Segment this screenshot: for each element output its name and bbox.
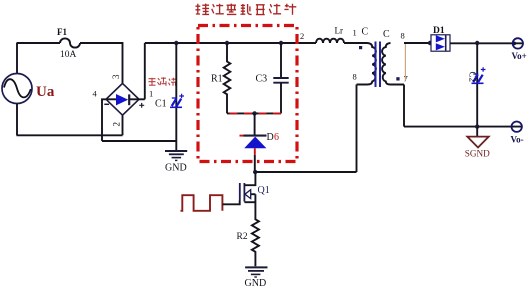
- svg-text:10A: 10A: [60, 50, 77, 60]
- ground GND left: [165, 151, 187, 160]
- wire RC bottom bar: [227, 112, 281, 114]
- diode D1 cathode bar: [445, 35, 447, 51]
- svg-text:GND: GND: [245, 278, 267, 289]
- transistor Q1 channel bar: [243, 183, 245, 202]
- node Vo+ wire dot: [512, 42, 516, 46]
- tan marker line: [404, 44, 406, 80]
- AC source circle: [2, 74, 32, 104]
- capacitor C1 symbol: [170, 94, 184, 108]
- wire top-left rail: [17, 42, 61, 44]
- resistor R1: [224, 43, 231, 113]
- wire C1 column: [175, 43, 177, 141]
- inductor Lr: [316, 39, 344, 43]
- diode D1 lower triangle: [436, 43, 445, 50]
- wire Lr to transformer: [344, 42, 367, 44]
- svg-text:C3: C3: [256, 74, 268, 85]
- svg-text:Q1: Q1: [258, 185, 270, 196]
- svg-text:R1: R1: [211, 74, 223, 85]
- terminal Vo+ circle: [513, 38, 523, 48]
- resistor R2: [252, 194, 259, 266]
- label zhengliuqiao (rectifier bridge) pseudo-CJK: [149, 77, 177, 86]
- capacitor C2 symbol: [472, 67, 486, 83]
- bridge plus mark: [139, 103, 144, 108]
- svg-text:2: 2: [112, 122, 122, 127]
- bridge inner diode triangle: [116, 94, 128, 105]
- svg-text:Ua: Ua: [36, 84, 55, 100]
- wire transformer left-bottom column: [356, 85, 358, 173]
- svg-text:F1: F1: [57, 27, 67, 37]
- diode D1 package box: [431, 35, 450, 51]
- transformer T primary winding: [357, 43, 376, 85]
- wire C2 column: [476, 43, 478, 127]
- transformer T secondary winding: [382, 43, 404, 85]
- capacitor C3 top lead: [280, 43, 282, 78]
- transistor Q1 arrow head: [245, 190, 251, 199]
- wire bridge minus lead down: [102, 99, 106, 141]
- node SGND junction: [475, 124, 479, 128]
- svg-text:3: 3: [111, 74, 121, 79]
- svg-text:C2: C2: [468, 72, 478, 83]
- wire RC bottom red dash overlay: [230, 112, 282, 114]
- svg-text:Vo+: Vo+: [512, 51, 527, 61]
- wire SGND stub: [476, 127, 478, 137]
- wire secondary top to D1: [404, 42, 431, 44]
- svg-text:1: 1: [149, 89, 153, 99]
- transistor Q1 body line with arrow: [244, 193, 255, 195]
- svg-text:C: C: [383, 29, 390, 40]
- node C2 top junction: [475, 41, 479, 45]
- svg-text:Vo-: Vo-: [511, 134, 524, 144]
- wire ground rail: [102, 140, 176, 142]
- diode D6 cathode bar: [244, 135, 267, 137]
- ground SGND triangle: [467, 137, 488, 148]
- transformer primary polarity dot: [359, 46, 362, 49]
- wire gnd stub: [175, 141, 177, 150]
- diode D6 red dash left of bar: [240, 135, 249, 137]
- capacitor C3 plates: [273, 78, 288, 83]
- terminal Vo- circle: [512, 122, 522, 132]
- svg-text:2: 2: [300, 31, 304, 41]
- clamp circuit dashed box: [198, 26, 297, 162]
- bridge inner diode lead left: [107, 98, 117, 100]
- node D6 junction: [252, 111, 256, 115]
- svg-text:1: 1: [353, 28, 357, 38]
- transformer core lines: [376, 42, 381, 88]
- svg-text:Lr: Lr: [335, 26, 344, 36]
- transistor Q1 source lead: [244, 201, 255, 203]
- svg-text:D1: D1: [433, 26, 445, 36]
- svg-text:6: 6: [274, 132, 279, 143]
- square wave source: [181, 195, 223, 211]
- wire D6 top lead: [254, 113, 256, 135]
- bridge inner diode lead right: [130, 98, 139, 100]
- wire gate lead: [222, 200, 239, 204]
- svg-text:D: D: [267, 132, 274, 143]
- wire secondary bottom column: [403, 85, 405, 127]
- node D1 anode junction: [428, 41, 432, 45]
- svg-text:8: 8: [353, 72, 357, 82]
- ground GND bottom: [245, 267, 267, 277]
- transistor Q1 drain lead: [244, 172, 255, 185]
- bridge rectifier diamond: [106, 83, 139, 115]
- fuse F1: [60, 38, 80, 47]
- diode D6 triangle: [244, 137, 266, 149]
- node C1 tap junction: [174, 41, 178, 45]
- node C3 tap junction: [279, 41, 283, 45]
- node drain junction: [253, 170, 257, 174]
- wire bridge right vertex stub: [139, 98, 145, 100]
- wire bottom of source loop: [17, 134, 123, 136]
- transformer secondary polarity dot: [396, 77, 399, 80]
- svg-text:C: C: [362, 27, 369, 38]
- wire left column below source: [16, 104, 18, 136]
- svg-text:C1: C1: [155, 99, 167, 110]
- wire bottom right rail: [404, 126, 522, 128]
- AC source sine: [4, 79, 31, 97]
- transistor Q1 gate bar: [239, 183, 241, 201]
- diode D6 red anode stub: [254, 148, 256, 155]
- wire D1 to Vo+: [450, 42, 523, 44]
- diode D1 upper triangle: [436, 35, 445, 42]
- wire drain junction to transformer return: [255, 171, 356, 173]
- wire bridge plus column up: [144, 43, 146, 99]
- wire top rail mid: [145, 42, 316, 44]
- svg-text:SGND: SGND: [465, 149, 490, 159]
- wire left column above source: [16, 43, 18, 74]
- svg-text:GND: GND: [165, 162, 187, 173]
- bridge inner diode cathode bar: [128, 94, 130, 105]
- bridge minus mark: [104, 103, 109, 105]
- wire fuse to bridge-top corner: [80, 43, 123, 83]
- node R1 tap junction: [225, 41, 229, 45]
- svg-text:8: 8: [401, 31, 405, 41]
- capacitor C3 bottom lead: [280, 83, 282, 114]
- svg-text:R2: R2: [237, 232, 248, 242]
- wire bridge bottom lead: [122, 115, 124, 135]
- title qianwei dianlu de sheji pseudo-CJK: [196, 4, 297, 15]
- wire D6 to drain junction: [254, 155, 256, 172]
